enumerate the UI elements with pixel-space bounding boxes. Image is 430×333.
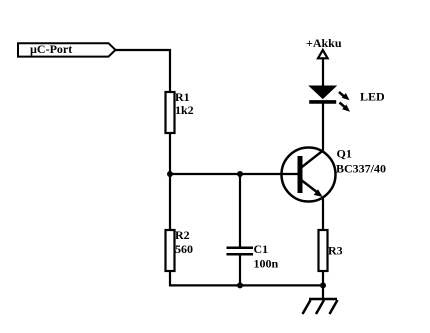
port flag µC-Port [18, 42, 116, 57]
svg-text:LED: LED [360, 90, 385, 104]
wire C1 to bottom rail [239, 254, 241, 285]
resistor R1 [166, 90, 194, 133]
node junction bottom middle [237, 282, 243, 288]
ground [303, 299, 338, 314]
node junction middle [237, 171, 243, 177]
svg-text:R1: R1 [175, 90, 190, 104]
resistor R2 [166, 228, 194, 271]
wire collector [322, 103, 324, 151]
capacitor C1 [227, 242, 279, 271]
svg-text:560: 560 [175, 242, 193, 256]
node junction left [167, 171, 173, 177]
wire R1 to node [169, 133, 171, 174]
svg-text:BC337/40: BC337/40 [336, 162, 386, 176]
wire R2 to bottom rail [170, 271, 323, 285]
svg-text:Q1: Q1 [337, 147, 352, 161]
LED [309, 86, 385, 112]
svg-text:+Akku: +Akku [306, 36, 342, 50]
wire node to C1 [239, 174, 241, 248]
svg-text:100n: 100n [254, 257, 279, 271]
wire node to R2 [169, 174, 171, 230]
transistor Q1 [282, 147, 387, 202]
wire R3 to ground [322, 271, 324, 299]
svg-text:R3: R3 [328, 244, 343, 258]
resistor R3 [319, 230, 343, 271]
wire emitter to R3 [322, 197, 324, 231]
wire base [170, 173, 299, 175]
svg-text:C1: C1 [254, 242, 269, 256]
svg-text:µC-Port: µC-Port [30, 42, 72, 56]
power +Akku [306, 36, 342, 58]
svg-text:R2: R2 [175, 228, 190, 242]
wire power to LED [322, 58, 324, 85]
node junction ground [320, 282, 326, 288]
wire flag to R1 [116, 50, 171, 92]
svg-text:1k2: 1k2 [175, 103, 194, 117]
